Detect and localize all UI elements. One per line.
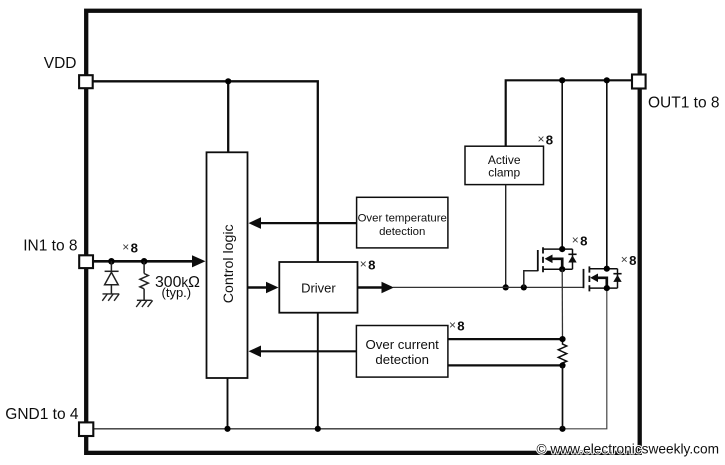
svg-text:8: 8 (629, 253, 636, 268)
svg-text:8: 8 (457, 318, 464, 333)
svg-text:IN1 to 8: IN1 to 8 (23, 238, 77, 255)
node VDD/control-logic junction (225, 78, 231, 84)
wire over current sense line (lower) (448, 364, 563, 366)
wire VDD rail to driver top (86, 81, 318, 262)
node OUT/M1-drain junction (559, 77, 565, 83)
svg-text:detection: detection (379, 226, 425, 238)
svg-text:Control logic: Control logic (221, 224, 237, 303)
wire OUT rail to active clamp top (506, 80, 640, 146)
svg-text:8: 8 (368, 258, 375, 273)
svg-text:Driver: Driver (301, 281, 336, 296)
wire sense resistor to GND rail (562, 365, 564, 428)
node GND/control-logic junction (224, 426, 230, 432)
wire GND rail (86, 428, 562, 430)
wire control logic to GND (227, 378, 229, 429)
wire driver to GND (317, 313, 319, 429)
driver box U2 (279, 262, 357, 313)
arrow control logic to driver (248, 286, 268, 288)
MOSFET Q2 (584, 253, 637, 292)
svg-text:×: × (449, 318, 456, 332)
arrow over current to control logic (260, 350, 356, 352)
wire M2 source return run (563, 288, 607, 429)
svg-text:© www.electronicsweekly.com: © www.electronicsweekly.com (537, 441, 720, 456)
wire M1 gate lead (524, 271, 538, 288)
node IN/resistor tap (141, 258, 148, 265)
svg-text:×: × (122, 240, 129, 254)
Q1 gate bar (537, 250, 539, 271)
outer case border (86, 11, 640, 453)
Q2 body diode (613, 273, 621, 275)
wire M2 drain riser (606, 80, 608, 268)
Q1 body diode (568, 253, 576, 255)
svg-text:clamp: clamp (488, 166, 520, 180)
Q2 source rail (589, 287, 617, 289)
resistor R1 300k (140, 261, 148, 300)
node IN/diode tap (108, 258, 115, 265)
active clamp box U5 (465, 146, 544, 184)
pin pad IN (79, 255, 93, 268)
over temperature detection box U3 (357, 197, 448, 248)
svg-text:8: 8 (131, 241, 138, 256)
node active-clamp/gate-line junction (503, 284, 509, 290)
node Q1 source (559, 266, 565, 272)
wire over current sense line (upper) (448, 338, 563, 340)
Q1 source arrow (552, 259, 563, 269)
wire M1 source to sense resistor (561, 269, 563, 339)
node GND/driver junction (315, 426, 321, 432)
svg-text:×: × (538, 132, 545, 146)
arrow IN to control logic (86, 260, 193, 263)
wire gate line to MOSFETs (393, 286, 584, 288)
Q1 channel bar (dashed) (542, 247, 544, 272)
diode D1 (input clamp) (105, 261, 119, 293)
node Q1 drain (559, 246, 565, 252)
svg-text:×: × (621, 253, 628, 267)
svg-text:Over current: Over current (366, 337, 440, 352)
arrow driver output (358, 286, 383, 288)
svg-text:OUT1 to 8: OUT1 to 8 (648, 95, 720, 112)
Q1 body-diode branch (572, 249, 574, 269)
svg-text:8: 8 (546, 133, 553, 148)
ground (diode D1) (102, 294, 119, 301)
svg-text:Over temperature: Over temperature (358, 213, 447, 225)
node M1 gate tap (521, 284, 527, 290)
pin pad OUT (632, 75, 646, 89)
control logic box U1 (207, 152, 248, 378)
arrow over temperature to control logic (260, 222, 357, 224)
svg-text:(typ.): (typ.) (162, 285, 192, 300)
ground (resistor R1) (136, 300, 152, 307)
resistor R2 (current sense) (558, 339, 566, 364)
MOSFET Q1 (538, 233, 588, 273)
wire VDD branch to control logic top (227, 81, 229, 152)
Q2 gate bar (583, 269, 585, 288)
node OUT/M2-drain junction (604, 77, 610, 83)
Q2 body-diode branch (617, 269, 619, 288)
node sense resistor bottom (559, 362, 565, 368)
svg-text:detection: detection (375, 352, 429, 367)
node Q2 source (604, 285, 610, 291)
svg-text:GND1 to 4: GND1 to 4 (5, 406, 79, 423)
svg-text:VDD: VDD (44, 55, 77, 72)
pin pad GND (79, 422, 93, 436)
Q1 source rail (543, 268, 573, 270)
wire active clamp bottom lead (505, 185, 507, 288)
wire M1 drain riser (561, 80, 563, 249)
node Q2 drain (604, 266, 610, 272)
over current detection box U4 (356, 326, 448, 378)
Q1 drain rail (543, 248, 573, 250)
svg-text:8: 8 (580, 233, 587, 248)
pin pad VDD (79, 75, 93, 88)
node sense resistor top (559, 336, 565, 342)
Q2 drain rail (589, 268, 617, 270)
Q2 channel bar (dashed) (588, 266, 590, 291)
svg-text:×: × (572, 233, 579, 247)
svg-text:×: × (360, 257, 367, 271)
node GND/sense-resistor junction (559, 426, 565, 432)
Q2 source arrow (597, 278, 607, 288)
